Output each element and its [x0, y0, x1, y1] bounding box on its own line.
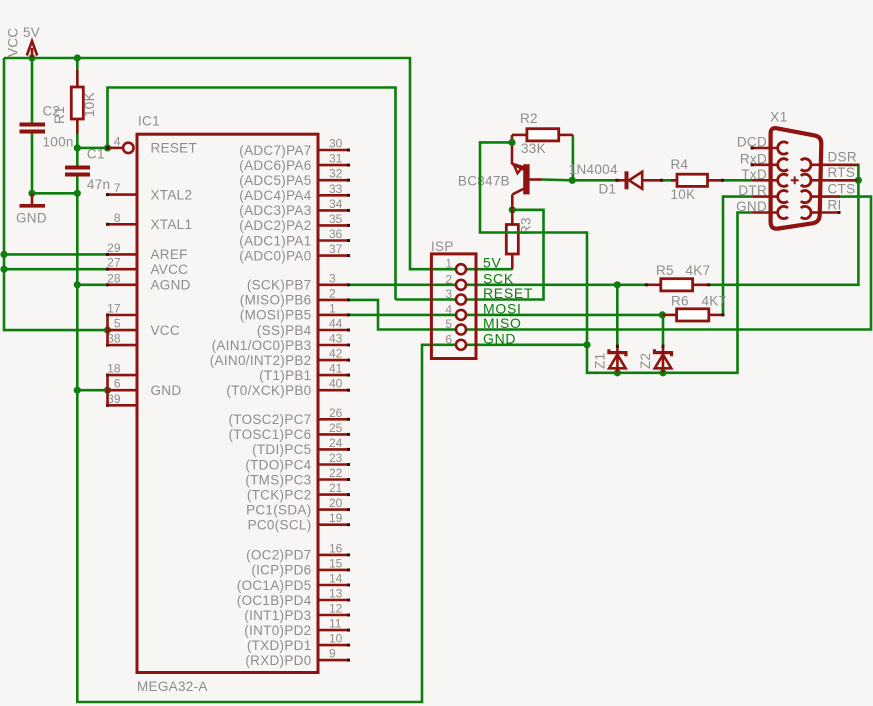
pin CTS X1 right: [811, 195, 840, 198]
svg-text:MEGA32-A: MEGA32-A: [137, 679, 208, 694]
svg-text:TxD: TxD: [741, 167, 767, 182]
svg-text:Z2: Z2: [638, 353, 653, 369]
svg-text:MOSI: MOSI: [483, 300, 522, 316]
node SCK junction Z1: [614, 281, 621, 288]
svg-text:RI: RI: [828, 197, 842, 212]
svg-text:10K: 10K: [671, 187, 696, 202]
wire GND rail down, bottom run, up to ISP GND row: [77, 193, 587, 702]
svg-text:(ADC0)PA0: (ADC0)PA0: [239, 248, 311, 263]
svg-text:34: 34: [329, 197, 343, 211]
pin GND X1 left: [752, 211, 778, 214]
svg-text:4K7: 4K7: [702, 294, 727, 309]
svg-text:XTAL2: XTAL2: [151, 187, 193, 202]
svg-text:CTS: CTS: [828, 181, 856, 196]
node VCC rail junction R1: [74, 54, 81, 61]
svg-text:(ADC6)PA6: (ADC6)PA6: [239, 158, 311, 173]
pin RI X1 right: [811, 211, 839, 214]
wire RTS pin link: [838, 179, 858, 182]
resistor R1 10K: [76, 70, 79, 87]
svg-text:DCD: DCD: [737, 135, 767, 150]
svg-text:2: 2: [445, 272, 452, 286]
pin 43 (AIN1/OC0)PB3 IC right: [318, 344, 349, 347]
node MOSI junction Z2 R6: [659, 311, 666, 318]
pin 32 (ADC5)PA5 IC right: [318, 179, 349, 182]
node base D1 junction: [569, 177, 576, 184]
connector ISP box: [431, 254, 476, 359]
pin 34 (ADC3)PA3 IC right: [318, 209, 349, 212]
svg-text:26: 26: [329, 406, 343, 420]
svg-text:VCC: VCC: [151, 323, 180, 338]
svg-text:(T1)PB1: (T1)PB1: [259, 368, 311, 383]
pin 39 IC left: [108, 404, 138, 407]
svg-text:R5: R5: [656, 263, 674, 278]
wire VCC top rail: [4, 58, 513, 269]
svg-text:6: 6: [445, 332, 452, 346]
svg-text:Z1: Z1: [593, 353, 608, 369]
svg-text:RxD: RxD: [740, 151, 767, 166]
pin RxD X1 left: [752, 164, 778, 167]
svg-text:PC0(SCL): PC0(SCL): [248, 518, 312, 533]
svg-text:(OC1B)PD4: (OC1B)PD4: [237, 593, 312, 608]
ground GND symbol: [31, 193, 34, 204]
pin 2 ISP net SCK: [456, 280, 466, 290]
svg-text:47n: 47n: [87, 177, 110, 192]
pin 41 (T1)PB1 IC right: [318, 374, 349, 377]
pin 21 (TCK)PC2 IC right: [318, 493, 349, 496]
svg-text:10: 10: [329, 632, 343, 646]
svg-text:5: 5: [445, 317, 452, 331]
pin 29 AREF IC left: [108, 253, 138, 256]
pin 4 ISP net MOSI: [456, 310, 466, 320]
wire C2 leads: [31, 58, 34, 123]
svg-text:36: 36: [329, 227, 343, 241]
svg-text:RTS: RTS: [828, 165, 856, 180]
svg-text:16: 16: [329, 541, 343, 555]
svg-text:GND: GND: [151, 383, 182, 398]
svg-text:13: 13: [329, 587, 343, 601]
svg-text:1: 1: [329, 301, 336, 315]
wire R1 bottom lead to RESET node: [76, 119, 79, 148]
svg-text:(RXD)PD0: (RXD)PD0: [245, 653, 311, 668]
svg-text:6: 6: [114, 377, 121, 391]
wire C1 leads: [76, 148, 79, 166]
wire AGND row: [77, 283, 107, 286]
svg-text:19: 19: [329, 511, 343, 525]
pin 28 AGND IC left: [108, 283, 138, 286]
svg-text:38: 38: [107, 332, 121, 346]
pin 23 (TDO)PC4 IC right: [318, 463, 349, 466]
node RESET junction C1: [74, 144, 81, 151]
svg-text:7: 7: [114, 181, 121, 195]
node ISP GND junction: [583, 341, 590, 348]
pin 15 (ICP)PD6 IC right: [318, 569, 349, 572]
svg-text:(ADC2)PA2: (ADC2)PA2: [239, 218, 311, 233]
svg-text:(OC1A)PD5: (OC1A)PD5: [237, 578, 312, 593]
svg-text:(MISO)PB6: (MISO)PB6: [240, 293, 312, 308]
pin 26 (TOSC2)PC7 IC right: [318, 418, 349, 421]
wire MISO row IC PB6 to ISP and CTS: [348, 197, 871, 330]
wire CTS green segment: [838, 195, 845, 198]
pin DSR X1 right: [811, 164, 859, 167]
resistor R4 10K: [671, 179, 677, 182]
svg-text:IC1: IC1: [138, 114, 160, 129]
svg-text:MISO: MISO: [483, 315, 522, 331]
svg-text:X1: X1: [770, 109, 788, 125]
pin 4 RESET IC left: [108, 147, 123, 150]
svg-text:GND: GND: [736, 199, 767, 214]
node GND pins junction rail: [74, 387, 81, 394]
svg-text:(ICP)PD6: (ICP)PD6: [251, 563, 311, 578]
svg-text:4: 4: [445, 302, 452, 316]
wire GND pins row: [77, 389, 107, 392]
node VCC rail junction C2: [28, 54, 35, 61]
pin 5 VCC IC left: [108, 329, 138, 332]
svg-text:(ADC4)PA4: (ADC4)PA4: [239, 188, 311, 203]
svg-text:(TCK)PC2: (TCK)PC2: [247, 487, 312, 502]
pin RTS X1 right: [811, 179, 859, 182]
svg-text:RESET: RESET: [483, 285, 533, 301]
svg-text:(TMS)PC3: (TMS)PC3: [245, 472, 311, 487]
svg-text:R4: R4: [671, 157, 689, 172]
node Z2 anode junction: [659, 369, 666, 376]
wire RESET row through ISP pin3 up to collector: [396, 210, 544, 300]
svg-text:41: 41: [329, 362, 343, 376]
svg-text:5: 5: [114, 317, 121, 331]
pin 7 XTAL2 IC left: [108, 193, 138, 196]
svg-text:(TDO)PC4: (TDO)PC4: [245, 457, 311, 472]
svg-text:31: 31: [329, 152, 343, 166]
svg-text:29: 29: [107, 241, 121, 255]
pin 16 (OC2)PD7 IC right: [318, 554, 349, 557]
svg-text:C1: C1: [87, 147, 105, 162]
wire R5 right to DSR riser: [709, 165, 859, 285]
pin 30 (ADC7)PA7 IC right: [318, 149, 349, 152]
svg-text:100n: 100n: [43, 135, 74, 150]
wire MOSI row IC PB5 to R6: [348, 314, 662, 317]
pin bus GND pins 18-6-39 tie: [106, 375, 109, 405]
svg-text:5V: 5V: [23, 25, 40, 40]
wire R2 right riser to D1 node: [572, 135, 575, 180]
node AVCC junction: [0, 266, 7, 273]
svg-text:42: 42: [329, 347, 343, 361]
node GND row right: [74, 190, 81, 197]
pin 40 (T0/XCK)PB0 IC right: [318, 389, 349, 392]
svg-text:(INT0)PD2: (INT0)PD2: [244, 623, 311, 638]
pin bus VCC pins 17-5-38 tie: [106, 315, 109, 345]
pin 18 IC left: [108, 374, 138, 377]
svg-text:10K: 10K: [82, 92, 97, 117]
svg-text:18: 18: [107, 362, 121, 376]
svg-text:33: 33: [329, 182, 343, 196]
svg-text:ISP: ISP: [431, 239, 454, 254]
node AREF junction: [0, 251, 7, 258]
pin 10 (TXD)PD1 IC right: [318, 644, 349, 647]
svg-text:40: 40: [329, 377, 343, 391]
pin 13 (OC1B)PD4 IC right: [318, 599, 349, 602]
svg-text:(ADC3)PA3: (ADC3)PA3: [239, 203, 311, 218]
wire left VCC rail down to AREF/AVCC/VCC pins: [4, 58, 108, 330]
wire R1 top lead: [76, 58, 79, 87]
pin 3 (SCK)PB7 IC right: [318, 283, 349, 286]
svg-text:8: 8: [114, 211, 121, 225]
pin 38 IC left: [108, 344, 138, 347]
wire collector link: [512, 209, 543, 212]
svg-text:(T0/XCK)PB0: (T0/XCK)PB0: [226, 383, 311, 398]
zener diode Z1: [616, 345, 619, 352]
resistor R2 33K: [512, 134, 527, 137]
svg-text:(SS)PB4: (SS)PB4: [257, 323, 312, 338]
svg-text:XTAL1: XTAL1: [151, 217, 193, 232]
resistor R6 4K7: [662, 314, 676, 317]
svg-text:4: 4: [114, 134, 121, 148]
svg-text:4K7: 4K7: [686, 263, 711, 278]
svg-text:GND: GND: [483, 330, 516, 346]
pin 27 AVCC IC left: [108, 268, 138, 271]
zener diode Z2: [662, 345, 665, 352]
svg-text:AVCC: AVCC: [151, 262, 189, 277]
svg-text:(TOSC2)PC7: (TOSC2)PC7: [228, 412, 311, 427]
connector X1 DB9 body: [771, 128, 822, 229]
svg-text:5V: 5V: [483, 255, 502, 271]
IC U1 MEGA32-A body: [137, 134, 318, 672]
svg-text:1N4004: 1N4004: [569, 162, 618, 177]
svg-text:R1: R1: [52, 106, 67, 124]
svg-text:(ADC1)PA1: (ADC1)PA1: [239, 233, 311, 248]
pin 9 (RXD)PD0 IC right: [318, 659, 349, 662]
svg-text:1: 1: [445, 257, 452, 271]
node Z1 anode junction: [614, 369, 621, 376]
svg-text:30: 30: [329, 137, 343, 151]
svg-text:R2: R2: [520, 111, 538, 126]
wire RESET row to IC pin: [77, 147, 112, 150]
svg-text:GND: GND: [16, 211, 47, 226]
svg-text:12: 12: [329, 602, 343, 616]
pin 1 (MOSI)PB5 IC right: [318, 314, 349, 317]
svg-text:SCK: SCK: [483, 270, 514, 286]
pin TxD X1 left: [752, 179, 778, 182]
wire Z1 riser: [616, 285, 619, 346]
svg-text:25: 25: [329, 421, 343, 435]
svg-text:22: 22: [329, 466, 343, 480]
pin 35 (ADC2)PA2 IC right: [318, 224, 349, 227]
wire SCK row IC PB7 to R5: [348, 283, 646, 286]
svg-text:43: 43: [329, 332, 343, 346]
node VCC pin junction: [104, 327, 111, 334]
wire AREF: [4, 253, 108, 256]
wire X1 GND down to zener ground row: [587, 213, 752, 373]
pin 24 (TDI)PC5 IC right: [318, 448, 349, 451]
pin 3 ISP net RESET: [456, 295, 466, 305]
svg-text:(AIN1/OC0)PB3: (AIN1/OC0)PB3: [212, 338, 312, 353]
wire AVCC: [4, 268, 108, 271]
resistor R5 4K7: [646, 283, 660, 286]
wire base to D1 node: [542, 178, 572, 181]
svg-text:(OC2)PD7: (OC2)PD7: [246, 548, 311, 563]
svg-text:11: 11: [329, 617, 342, 631]
svg-text:(MOSI)PB5: (MOSI)PB5: [240, 308, 312, 323]
pin 33 (ADC4)PA4 IC right: [318, 194, 349, 197]
svg-text:14: 14: [329, 572, 343, 586]
svg-text:44: 44: [329, 317, 343, 331]
svg-text:20: 20: [329, 496, 343, 510]
svg-text:RESET: RESET: [151, 141, 198, 156]
pin 12 (INT1)PD3 IC right: [318, 614, 349, 617]
pin 1 ISP net 5V: [456, 264, 466, 274]
pin 31 (ADC6)PA6 IC right: [318, 164, 349, 167]
node RTS junction: [855, 177, 862, 184]
pin 44 (SS)PB4 IC right: [318, 329, 349, 332]
pin 36 (ADC1)PA1 IC right: [318, 239, 349, 242]
pin 25 (TOSC1)PC6 IC right: [318, 433, 349, 436]
pin 42 (AIN0/INT2)PB2 IC right: [318, 359, 349, 362]
svg-text:(ADC7)PA7: (ADC7)PA7: [239, 143, 311, 158]
node emitter junction R2: [508, 139, 515, 146]
wire DSR green segment: [838, 164, 858, 167]
svg-text:35: 35: [329, 212, 343, 226]
pin 8 XTAL1 IC left: [108, 223, 138, 226]
svg-text:2: 2: [329, 286, 336, 300]
svg-text:(INT1)PD3: (INT1)PD3: [244, 608, 311, 623]
capacitor C2 100n: [20, 123, 46, 127]
pin 22 (TMS)PC3 IC right: [318, 478, 349, 481]
capacitor C1 47n: [65, 166, 90, 170]
svg-text:9: 9: [329, 647, 336, 661]
svg-text:3: 3: [329, 271, 336, 285]
pin 19 PC0(SCL) IC right: [318, 523, 349, 526]
pin 2 (MISO)PB6 IC right: [318, 299, 349, 302]
node AGND junction: [74, 281, 81, 288]
svg-text:21: 21: [329, 481, 343, 495]
svg-text:24: 24: [329, 436, 343, 450]
svg-text:(TOSC1)PC6: (TOSC1)PC6: [228, 427, 311, 442]
wire Z2 riser: [662, 315, 665, 346]
pin 11 (INT0)PD2 IC right: [318, 629, 349, 632]
svg-text:(ADC5)PA5: (ADC5)PA5: [239, 173, 311, 188]
svg-text:3: 3: [445, 287, 452, 301]
svg-text:15: 15: [329, 556, 343, 570]
svg-text:27: 27: [107, 256, 121, 270]
svg-text:28: 28: [107, 271, 121, 285]
svg-text:23: 23: [329, 451, 343, 465]
pin DCD X1 left: [752, 147, 778, 150]
node RESET junction riser: [104, 144, 111, 151]
pin 20 PC1(SDA) IC right: [318, 508, 349, 511]
svg-text:(SCK)PB7: (SCK)PB7: [247, 278, 312, 293]
pin 6 GND IC left: [108, 389, 138, 392]
svg-text:DSR: DSR: [828, 150, 857, 165]
pin 17 IC left: [108, 314, 138, 317]
svg-text:(TXD)PD1: (TXD)PD1: [247, 638, 312, 653]
wire emitter to ground link: [480, 142, 587, 344]
power VCC symbol 5V arrow: [27, 41, 37, 56]
svg-text:VCC: VCC: [6, 28, 21, 57]
svg-text:DTR: DTR: [738, 183, 767, 198]
wire RESET riser across top to ISP column: [108, 88, 396, 300]
svg-text:(TDI)PC5: (TDI)PC5: [252, 442, 311, 457]
pin DTR X1 left: [752, 195, 778, 198]
svg-text:32: 32: [329, 167, 343, 181]
diode D1 1N4004: [617, 179, 627, 182]
wire GND row top-left: [32, 192, 77, 195]
svg-text:(AIN0/INT2)PB2: (AIN0/INT2)PB2: [210, 353, 312, 368]
pin 5 ISP net MISO: [456, 325, 466, 335]
svg-text:37: 37: [329, 242, 343, 256]
node collector junction: [509, 206, 516, 213]
svg-text:D1: D1: [599, 181, 617, 196]
pin 37 (ADC0)PA0 IC right: [318, 254, 349, 257]
svg-text:17: 17: [107, 302, 121, 316]
node GND row left: [28, 190, 35, 197]
svg-text:AGND: AGND: [151, 278, 191, 293]
svg-text:33K: 33K: [521, 141, 546, 156]
pin 14 (OC1A)PD5 IC right: [318, 584, 349, 587]
svg-text:PC1(SDA): PC1(SDA): [246, 502, 311, 517]
resistor R3: [511, 210, 514, 225]
svg-text:AREF: AREF: [151, 247, 188, 262]
wire TxD net D1 to R4 to X1: [572, 179, 620, 182]
svg-text:R6: R6: [671, 294, 689, 309]
node GND pins junction: [104, 387, 111, 394]
wire DTR riser to R6: [723, 197, 752, 315]
svg-text:39: 39: [107, 392, 121, 406]
transistor Q1 BC847B: [511, 135, 514, 165]
svg-text:BC847B: BC847B: [458, 174, 510, 189]
pin 6 ISP net GND: [456, 340, 466, 350]
